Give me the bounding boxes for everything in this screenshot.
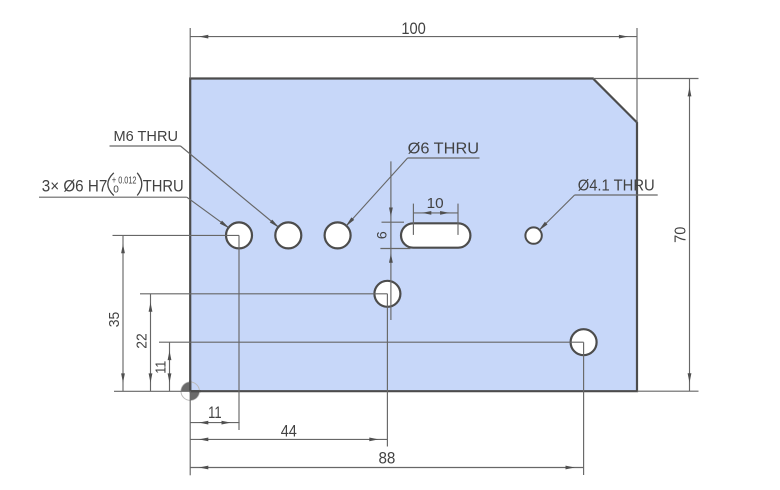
svg-text:M6 THRU: M6 THRU	[114, 129, 179, 145]
plate outline with chamfer	[190, 79, 637, 392]
dim 11 bottom left arrow	[199, 421, 208, 425]
svg-text:22: 22	[135, 333, 151, 349]
dim 44 left arrow	[199, 438, 208, 442]
svg-text:88: 88	[378, 449, 395, 468]
leader 3x arrow	[220, 221, 230, 229]
leader M6 diagonal	[181, 146, 279, 227]
hole H4 (lower Ø6)	[374, 281, 400, 307]
svg-text:44: 44	[281, 421, 297, 440]
leader Ø6 arrow	[345, 217, 354, 226]
dim 11 left dimension line	[169, 342, 171, 391]
slot 10x6	[401, 223, 470, 247]
dim 6 upper arrow pointing down	[389, 208, 393, 217]
leader M6 arrow	[270, 220, 280, 228]
dim 10 left extension line	[412, 204, 414, 235]
svg-text:100: 100	[401, 19, 426, 38]
dim 44 dimension line	[190, 438, 387, 440]
dim 35 bottom arrow	[121, 373, 125, 382]
svg-text:70: 70	[673, 226, 690, 243]
svg-text:0: 0	[113, 185, 119, 196]
dim 6 bottom extension tick	[380, 248, 410, 250]
dim 88 left arrow	[199, 466, 208, 470]
dim 22 bottom arrow	[149, 373, 153, 382]
svg-text:11: 11	[153, 361, 169, 374]
leader 3x diagonal	[187, 197, 229, 228]
dim 70 bottom extension line	[637, 390, 699, 392]
hole H3 (Ø6 THRU)	[325, 222, 351, 248]
dim 6 top extension tick	[382, 221, 405, 223]
dim 10 left arrow	[422, 211, 431, 215]
dim 11 left bottom arrow	[168, 373, 172, 382]
dim 100 left arrow	[199, 35, 208, 39]
hole H1 vertical extension line	[238, 235, 240, 430]
svg-text:35: 35	[107, 312, 123, 328]
dim 70 dimension line	[689, 79, 691, 392]
dim 35 dimension line	[122, 235, 124, 391]
dim 88 right arrow	[566, 466, 575, 470]
origin marker circle	[181, 382, 199, 400]
label tolerance right paren	[137, 173, 142, 196]
leader M6 underline	[110, 145, 181, 147]
dim 70 top extension line	[593, 78, 699, 80]
dim 35 top arrow	[121, 244, 125, 253]
leader Ø4.1 underline	[575, 194, 658, 196]
leader Ø4.1 diagonal	[540, 195, 575, 230]
svg-text:Ø6 THRU: Ø6 THRU	[408, 140, 480, 157]
leader 3x underline	[39, 196, 187, 198]
dim 100 left extension line	[189, 28, 191, 79]
hole H1 (first of 3x Ø6 H7)	[226, 222, 252, 248]
dim 100 dimension line	[190, 36, 637, 38]
dim 70 top arrow	[688, 87, 692, 96]
dim 11 left top extension to hole H5 center	[159, 341, 584, 343]
dim 11 bottom right arrow	[222, 421, 231, 425]
dim 70 bottom arrow	[688, 373, 692, 382]
svg-text:6: 6	[373, 231, 389, 239]
hole H5 vertical extension line	[583, 342, 585, 475]
leader Ø4.1 arrow	[538, 222, 547, 231]
svg-text:11: 11	[208, 403, 222, 422]
dim 35 top extension to hole H1 center	[113, 234, 240, 236]
dim 11 left top arrow	[168, 351, 172, 360]
label tolerance left paren	[108, 173, 114, 196]
svg-text:Ø4.1 THRU: Ø4.1 THRU	[578, 178, 655, 195]
left dims shared bottom extension line	[114, 390, 190, 392]
dim 100 right arrow	[619, 35, 628, 39]
left edge extension line below plate	[189, 391, 191, 475]
dim 22 top arrow	[149, 302, 153, 311]
dim 88 dimension line	[190, 467, 583, 469]
hole H4 vertical extension line	[386, 294, 388, 447]
dim 22 top extension to hole H4 center	[140, 293, 387, 295]
hole Ø4.1 THRU	[525, 227, 541, 243]
dim 44 right arrow	[369, 438, 378, 442]
hole H5 (lower right Ø6)	[571, 329, 597, 355]
dim 11 bottom dimension line	[190, 422, 239, 424]
dim 10 right extension line	[457, 204, 459, 235]
leader Ø6 underline	[408, 157, 480, 159]
plate corner over marker	[189, 381, 191, 392]
hole H2 (M6 THRU)	[275, 222, 301, 248]
svg-text:THRU: THRU	[143, 178, 184, 196]
dim 22 dimension line	[150, 294, 152, 392]
dim 10 right arrow	[440, 211, 449, 215]
origin marker dark quadrants	[181, 382, 199, 400]
svg-text:10: 10	[427, 195, 444, 212]
svg-text:3× Ø6 H7: 3× Ø6 H7	[42, 178, 108, 196]
dim 10 dimension line	[413, 212, 458, 214]
leader Ø6 diagonal	[346, 158, 407, 226]
dim 6 lower arrow pointing up	[389, 254, 393, 263]
dim 100 right extension line	[636, 28, 638, 123]
dim 6 vertical line	[390, 161, 392, 320]
